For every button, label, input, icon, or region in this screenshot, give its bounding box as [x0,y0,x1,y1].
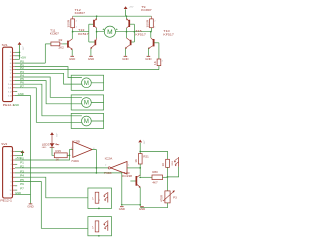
svg-text:11: 11 [10,194,12,196]
junction node B right [150,31,152,33]
svg-text:IC2A: IC2A [105,156,113,160]
supply arrow +5V SV2 [15,150,24,160]
supply arrow +5V LED [50,132,57,143]
svg-text:6: 6 [10,69,12,71]
transistor T20 KC238 [122,171,140,187]
svg-text:1K: 1K [153,61,157,65]
resistor R4 100R left pull-up [67,16,77,29]
svg-text:5: 5 [10,66,12,68]
svg-text:GND: GND [15,191,21,195]
svg-text:KC807: KC807 [50,31,59,35]
transistor upper-right PNP (T15) [126,19,134,28]
wire LED to R15 [52,148,54,156]
svg-text:P3: P3 [20,169,24,173]
junction rail left column [96,15,98,17]
connector SV1 pins [13,52,16,95]
junction +5V rows [19,52,21,54]
junction R18/pot node [167,176,169,178]
potentiometer P3 trimmer [160,177,177,203]
H-bridge right column wires [125,16,150,56]
svg-text:GND: GND [13,103,19,107]
svg-text:4K7: 4K7 [152,182,158,185]
svg-text:1K: 1K [56,159,60,162]
wire row P3 to motor box1 pin2 [15,73,71,84]
svg-text:2: 2 [10,56,12,58]
wire top +V rail [73,15,152,17]
svg-text:P6: P6 [20,182,24,186]
junction motor node left [96,31,98,33]
junction R15/P0/input [69,155,71,157]
svg-text:P2: P2 [20,66,24,70]
inverter IC2B 7404 [71,139,95,163]
junction R80 left node [139,176,141,178]
svg-text:12: 12 [8,91,12,93]
svg-text:3: 3 [71,148,72,150]
junction sensor GND [121,204,123,206]
inverter IC2A 7404 (points left) [104,156,130,175]
wire long row P2 to R19 [15,69,159,71]
svg-text:2K2: 2K2 [59,46,65,49]
junction motor node right [126,31,128,33]
svg-text:IC2B: IC2B [72,139,80,143]
svg-text:P2: P2 [20,164,24,168]
svg-text:P5: P5 [20,77,24,81]
svg-text:470R: 470R [160,195,163,202]
sensor box1 [88,188,112,208]
svg-text:SV2: SV2 [1,142,8,146]
wire row P4 to sensor box1 [15,177,88,198]
wire +5V pin rows SV2 [15,151,23,155]
transistor T11 KC807 (left driver) [50,28,73,56]
connector SV1 pin numbers [8,52,12,97]
svg-text:P3: P3 [20,70,24,74]
svg-text:P4: P4 [20,73,24,77]
svg-text:SV1: SV1 [2,43,9,47]
wire node A to base link [73,24,89,42]
svg-text:KC807: KC807 [75,11,86,15]
svg-text:1K: 1K [135,159,138,163]
svg-text:P6: P6 [20,81,24,85]
ground under T11 [69,56,75,61]
svg-text:2: 2 [76,21,77,23]
wire R15 to IC2B input [67,149,73,155]
junction +5V branch [139,151,141,153]
transistor lower-right NPN [125,38,134,49]
junction rail right column [126,15,128,17]
wire pot bottom to GND [140,203,167,208]
supply arrow +5V top [124,6,134,16]
wire T20 emitter to GND [139,187,141,206]
svg-text:5: 5 [11,168,12,170]
wire row P0 [15,62,45,64]
svg-text:8: 8 [10,77,12,79]
ground T20 [139,206,145,211]
svg-text:KF517: KF517 [78,32,89,36]
svg-text:7: 7 [10,73,12,75]
resistor R19 (T9 base) [153,43,163,70]
svg-text:R80: R80 [152,171,158,174]
svg-text:7404: 7404 [104,171,112,175]
svg-text:7404: 7404 [71,159,79,163]
wire row P0 to IC2B input [15,149,70,160]
junction node A [72,31,74,33]
wire row P3 to sensor ground rail [15,173,122,205]
svg-text:1: 1 [10,52,12,54]
motor M1 top [97,26,127,37]
svg-text:9: 9 [10,80,12,82]
svg-text:100R: 100R [67,20,71,28]
svg-text:M: M [84,101,89,107]
connector SV2 body [0,142,12,202]
svg-text:KF517: KF517 [163,33,174,37]
wire R18 bottom to node row [168,167,179,177]
resistor P1 in box1 [92,192,98,203]
ground left rail [27,204,33,209]
connector SV2 pins [13,151,16,194]
svg-text:10: 10 [9,190,11,192]
transistor lower-left NPN [89,38,97,49]
ground sensor rail [119,206,125,211]
wire row P4 to motor box2 pin1 [15,77,71,97]
H-bridge left column wires [91,16,97,56]
wire rows P6 P7 stubs [15,186,17,190]
motor pin plus marks [103,29,118,31]
svg-text:1: 1 [128,165,129,167]
svg-text:R15: R15 [56,150,62,153]
connector SV2 pin numbers [9,151,11,196]
wire IC2B output down [92,150,96,173]
svg-text:2: 2 [154,21,155,23]
transistor upper-left PNP (T13) [89,19,97,28]
svg-text:1: 1 [11,151,12,153]
ground under right column [122,56,128,61]
wire row P7 to motor box3 pin2 [15,88,71,123]
svg-text:11: 11 [8,88,12,90]
junction box1 bottom [98,208,100,210]
junction R21 node [139,167,141,169]
svg-text:+5V: +5V [129,7,135,9]
wire R2 to SV1 row P0 [44,44,46,63]
svg-text:KC238: KC238 [122,174,132,178]
svg-text:+5V: +5V [20,56,26,60]
svg-text:6: 6 [11,173,12,175]
transistor T9 KC807 (right driver) [148,32,159,56]
svg-text:1: 1 [154,26,155,28]
junction IC2B out / P2 wire [96,172,98,174]
svg-text:KF517: KF517 [135,33,146,37]
svg-text:9: 9 [11,186,12,188]
resistor 100R right pull-up [145,16,155,32]
svg-text:P1: P1 [20,161,24,165]
svg-text:1K: 1K [162,162,165,166]
motor box M4 [71,113,103,128]
svg-text:M: M [84,119,89,125]
svg-text:13: 13 [8,95,12,97]
svg-text:10: 10 [8,84,12,86]
phototransistor T2 arrows [172,157,179,167]
supply arrow +5V R21 [138,140,144,154]
wire row P6 to motor box3 pin1 [15,84,71,116]
wire row P5 to motor box2 pin2 [15,81,71,104]
svg-text:KC807: KC807 [141,8,152,12]
svg-text:PE12-1: PE12-1 [0,198,12,202]
wire sensor GND rail [122,204,140,206]
wire IC2A input from R21 node [127,167,140,169]
LED3 [42,143,60,149]
ground under T9 [145,56,151,61]
svg-text:2: 2 [162,61,163,63]
phototransistor in box1 [99,192,108,203]
wire row P1 stub [15,163,17,165]
svg-text:3: 3 [10,59,12,61]
resistor P2 in box2 [92,221,98,232]
svg-text:4: 4 [11,164,12,166]
wire +5V pin rows SV1 [15,52,20,59]
svg-text:P7: P7 [20,84,24,88]
wire R21 bottom node [139,164,141,176]
motor box M2 [71,75,103,90]
motor box M3 [71,95,103,110]
svg-text:2: 2 [11,156,12,158]
svg-text:3: 3 [11,160,12,162]
supply arrow +5V SV1 [18,42,24,59]
sensor box2 [88,217,112,236]
resistor R18 [162,159,169,167]
svg-text:LED: LED [42,147,47,149]
svg-text:M: M [84,81,89,87]
connector SV1 body [2,43,19,107]
svg-text:8: 8 [11,181,12,183]
svg-text:R21: R21 [143,156,149,159]
svg-text:P7: P7 [20,187,24,191]
resistor R80 4K7 [140,171,167,185]
wire row stubs [15,91,17,93]
resistor R15 1K [54,150,67,161]
resistor R21 1K [135,154,150,164]
svg-text:2: 2 [105,164,106,166]
svg-text:100R: 100R [145,20,149,28]
svg-text:P5: P5 [20,178,24,182]
svg-text:7: 7 [11,177,12,179]
resistor R2 2K2 (T11 base) [45,39,67,49]
wire row P5 to sensor box2 [15,182,88,229]
wire row P2 to IC2A output [15,167,108,169]
wire row GND SV2 [15,193,31,195]
junction base link right [134,31,136,33]
svg-text:1: 1 [76,26,77,28]
ground under left column [88,56,94,61]
phototransistor in box2 [103,220,108,231]
svg-text:P4: P4 [20,174,24,178]
svg-text:P0: P0 [20,156,24,160]
wire row GND down left rail [15,96,31,204]
wire +5V branch to R18 [140,151,167,159]
junction box2 bottom [98,235,100,237]
svg-text:M: M [107,29,113,36]
svg-text:4: 4 [10,63,12,65]
svg-text:GND: GND [18,92,24,96]
wire row P1 to motor box1 pin1 [15,67,71,78]
svg-text:P0: P0 [20,60,24,64]
